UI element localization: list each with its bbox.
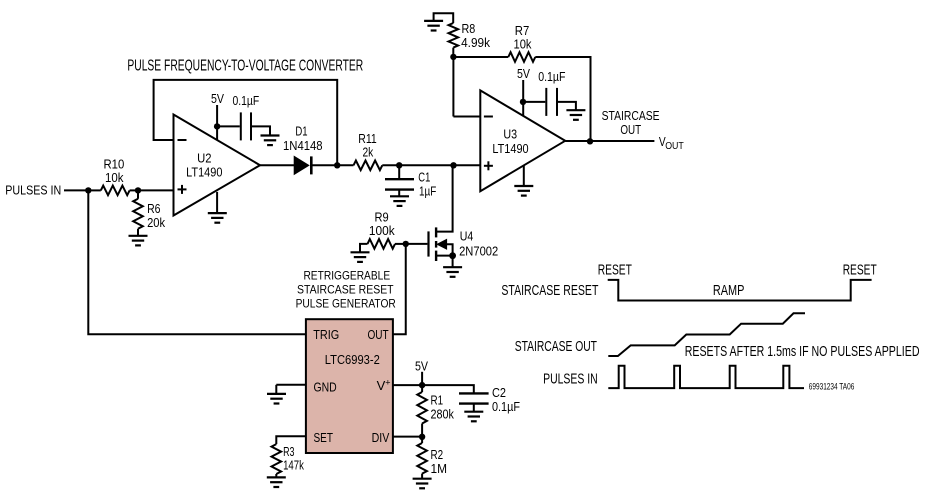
resistor R11 [354, 161, 383, 171]
pin label DIV [372, 430, 390, 445]
label 0.1uF at U3 [538, 69, 565, 84]
svg-text:U3: U3 [503, 127, 517, 142]
svg-text:RESETS AFTER 1.5ms IF NO PULSE: RESETS AFTER 1.5ms IF NO PULSES APPLIED [685, 343, 920, 360]
svg-text:R8: R8 [462, 21, 476, 36]
ground below R2 [413, 479, 432, 489]
svg-text:DIV: DIV [372, 430, 390, 445]
svg-text:RESET: RESET [843, 261, 877, 278]
node feedback tap [334, 162, 340, 168]
U2 minus sign [178, 139, 187, 141]
svg-text:C2: C2 [492, 385, 506, 400]
svg-text:GND: GND [314, 379, 337, 394]
wire to U3 bypass cap [523, 101, 545, 103]
resistor R3 [272, 444, 282, 474]
wire PULSES IN lead [64, 189, 88, 191]
label D1 [283, 123, 323, 152]
ground at R9 left [351, 252, 370, 262]
U4 body arrow [437, 240, 447, 250]
svg-text:R1: R1 [431, 393, 444, 408]
svg-text:5V: 5V [415, 358, 428, 373]
svg-text:PULSE GENERATOR: PULSE GENERATOR [296, 297, 396, 311]
U3 plus sign [484, 161, 493, 170]
wire R3 bottom lead [275, 474, 277, 477]
wire U2 out to D1 [260, 164, 296, 166]
svg-text:0.1µF: 0.1µF [233, 93, 260, 108]
wire PULSES IN to TRIG [88, 190, 306, 334]
svg-text:RESET: RESET [598, 261, 632, 278]
svg-text:OUT: OUT [368, 327, 389, 342]
svg-text:4.99k: 4.99k [461, 35, 490, 50]
waveform staircase reset [608, 280, 872, 301]
ground at U2 bypass [261, 136, 280, 146]
label R10 [104, 157, 125, 186]
node gate junction [403, 241, 409, 247]
node R10/R6 junction [135, 187, 141, 193]
wire -IN riser [452, 57, 454, 117]
wire to U3 +IN [454, 164, 481, 166]
wire R6 bottom lead [137, 229, 139, 235]
wire to C2 [422, 385, 474, 393]
node U3 supply tap [520, 99, 526, 105]
label RESET left [598, 261, 632, 278]
U3 minus sign [484, 116, 493, 118]
svg-text:280k: 280k [431, 406, 455, 421]
label STAIRCASE OUT [602, 108, 660, 137]
label C2 [492, 385, 520, 414]
pin label TRIG [313, 327, 339, 342]
capacitor C2 [459, 393, 489, 403]
wire U4 drain lead [436, 165, 453, 231]
svg-text:100k: 100k [369, 223, 395, 238]
ground at U3 bypass [566, 110, 585, 120]
label STAIRCASE OUT waveform [515, 338, 597, 355]
wire gnd to R8 [434, 13, 454, 23]
wire R7 to output node [535, 57, 590, 141]
label LTC6993-2 [325, 352, 380, 367]
U2 plus sign [178, 185, 187, 194]
svg-text:LT1490: LT1490 [492, 141, 528, 156]
wire R10 right lead [130, 189, 138, 191]
svg-text:R9: R9 [375, 209, 389, 224]
node V+ junction [419, 382, 425, 388]
svg-text:10k: 10k [514, 37, 532, 52]
wire GND stub [275, 385, 277, 394]
wire DIV pin [393, 436, 422, 438]
label C1 [418, 170, 436, 199]
svg-text:TRIG: TRIG [313, 327, 339, 342]
capacitor 0.1uF at U2 [241, 112, 251, 140]
svg-text:LT1490: LT1490 [186, 165, 222, 180]
wire R2 top lead [421, 437, 423, 443]
label 5V at U2 [211, 91, 224, 106]
pin label OUT [368, 327, 389, 342]
ground below C2 [464, 412, 483, 422]
svg-text:R2: R2 [431, 447, 444, 462]
wire R6 top lead [137, 190, 139, 198]
svg-text:LTC6993-2: LTC6993-2 [325, 352, 380, 367]
ground below R3 [267, 477, 286, 487]
ground below C1 [390, 196, 409, 206]
svg-text:5V: 5V [211, 91, 224, 106]
node U3 output [587, 138, 593, 144]
wire U4 source lead [436, 255, 453, 257]
wire gate lead [406, 243, 428, 245]
node U2 supply tap [214, 123, 220, 129]
ground below R6 [129, 236, 148, 246]
svg-text:20k: 20k [147, 215, 165, 230]
resistor R10 [101, 186, 130, 196]
label R8 [461, 21, 490, 50]
label U4 [459, 229, 498, 259]
wire U3 bypass to gnd [557, 102, 576, 110]
svg-text:147k: 147k [283, 457, 304, 472]
svg-text:2k: 2k [363, 144, 374, 159]
wire R9 gnd lead [360, 244, 368, 252]
label R7 [514, 23, 532, 52]
resistor R9 [368, 239, 396, 249]
wire junction to R7 [453, 56, 508, 58]
wire R11 to C1 node [382, 164, 399, 166]
transistor U4 gate bar [427, 231, 429, 256]
wire C1 node to U3 node [399, 164, 453, 166]
label U2 [186, 151, 222, 180]
wire U4 source to gnd [452, 256, 454, 268]
wire R8 bottom lead [452, 48, 454, 57]
resistor R2 [417, 443, 427, 474]
wire 5V drop to U3 [522, 80, 524, 116]
pin label SET [314, 430, 334, 445]
svg-text:0.1µF: 0.1µF [492, 399, 520, 414]
IC LTC6993-2 body [306, 319, 393, 453]
wire U2 bypass to gnd [251, 126, 270, 135]
svg-text:D1: D1 [295, 123, 307, 138]
wire to U2 bypass cap [217, 125, 240, 127]
svg-text:U4: U4 [460, 229, 474, 244]
wire V+ pin [393, 384, 422, 386]
label U3 [492, 127, 528, 157]
label R11 [358, 131, 377, 159]
pin label V+ [377, 377, 391, 393]
svg-text:PULSES IN: PULSES IN [5, 183, 61, 198]
svg-text:C1: C1 [418, 170, 430, 185]
wire R2 bottom lead [421, 474, 423, 479]
wire to U3 -IN [453, 116, 480, 118]
resistor R1 [417, 392, 427, 424]
diode D1 [294, 156, 311, 174]
svg-text:1M: 1M [431, 461, 448, 476]
svg-text:5V: 5V [517, 66, 530, 81]
wire U3 ground stub [523, 166, 525, 186]
wire to U2 +IN [138, 189, 174, 191]
label STAIRCASE RESET [501, 282, 598, 299]
node U3 +IN / drain tap [450, 162, 456, 168]
ground below U2 [208, 213, 227, 223]
label RESET right [843, 261, 877, 278]
resistor R6 [133, 199, 143, 229]
wire U3 output [565, 140, 654, 142]
waveform staircase out [608, 313, 805, 356]
label RETRIGGERABLE STAIRCASE RESET PULSE GENERATOR [296, 269, 396, 311]
svg-text:OUT: OUT [665, 141, 684, 152]
wire R1 top lead [421, 385, 423, 392]
wire U2 ground stub [216, 192, 218, 213]
svg-text:69931234 TA06: 69931234 TA06 [809, 382, 855, 392]
title PULSE FREQUENCY-TO-VOLTAGE CONVERTER [127, 57, 363, 74]
wire GND pin [276, 384, 306, 386]
wire D1 to R11 [311, 164, 353, 166]
node R8/R7 junction [450, 54, 456, 60]
label part number [809, 382, 855, 392]
svg-text:OUT: OUT [620, 122, 641, 137]
transistor U4 channel [435, 227, 437, 261]
op-amp U3 [480, 90, 565, 191]
svg-text:R6: R6 [147, 201, 160, 216]
label 5V at U3 [517, 66, 530, 81]
svg-text:0.1µF: 0.1µF [538, 69, 565, 84]
wire C1 gnd stub [398, 190, 400, 197]
node U4 source/body [449, 252, 456, 259]
svg-text:STAIRCASE RESET: STAIRCASE RESET [297, 283, 394, 297]
svg-text:STAIRCASE RESET: STAIRCASE RESET [501, 282, 598, 299]
label 0.1uF at U2 [233, 93, 260, 108]
wire R10 left lead [88, 189, 101, 191]
label R3 [283, 444, 304, 473]
resistor R7 [508, 52, 535, 62]
node R1/R2/DIV junction [419, 434, 425, 440]
label R6 [147, 201, 165, 230]
svg-text:RAMP: RAMP [713, 282, 745, 299]
label PULSES IN waveform [543, 370, 598, 387]
resistor R8 [449, 23, 459, 48]
wire U4 body lead [446, 244, 453, 255]
op-amp U2 [174, 115, 261, 216]
node PULSES IN label [5, 183, 61, 198]
capacitor 0.1uF at U3 [546, 88, 557, 116]
capacitor C1 [385, 179, 414, 189]
svg-text:1µF: 1µF [419, 184, 436, 199]
wire U2 feedback loop [154, 80, 338, 165]
svg-text:10k: 10k [105, 170, 124, 185]
ground at R8 top [424, 21, 443, 31]
svg-text:2N7002: 2N7002 [459, 243, 498, 258]
ground at GND pin [267, 394, 286, 404]
svg-text:1N4148: 1N4148 [283, 138, 323, 153]
svg-text:PULSES IN: PULSES IN [543, 370, 598, 387]
label R1 [431, 393, 455, 422]
node input junction [85, 187, 91, 193]
svg-text:RETRIGGERABLE: RETRIGGERABLE [303, 269, 390, 283]
label R9 [369, 209, 395, 238]
wire gate node to OUT pin [393, 244, 406, 334]
svg-text:SET: SET [314, 430, 334, 445]
label RAMP [713, 282, 745, 299]
svg-text:STAIRCASE: STAIRCASE [602, 108, 660, 123]
label R2 [431, 447, 448, 476]
svg-text:STAIRCASE OUT: STAIRCASE OUT [515, 338, 597, 355]
svg-text:PULSE FREQUENCY-TO-VOLTAGE CON: PULSE FREQUENCY-TO-VOLTAGE CONVERTER [127, 57, 363, 74]
wire SET pin [276, 436, 306, 444]
wire R9 to gate node [395, 243, 406, 245]
wire R1 bottom lead [421, 424, 423, 437]
label RESETS AFTER 1.5ms IF NO PULSES APPLIED [685, 343, 920, 360]
label VOUT [659, 134, 684, 152]
wire C2 gnd stub [473, 404, 475, 412]
node C1 tap [396, 162, 402, 168]
svg-text:U2: U2 [197, 151, 211, 166]
ground below U4 [443, 267, 462, 277]
label 5V at V+ [415, 358, 428, 373]
pin label GND [314, 379, 337, 394]
waveform pulses in [608, 366, 804, 388]
wire 5V drop to U2 [216, 105, 218, 140]
wire C1 stub [398, 165, 400, 178]
wire 5V drop [421, 372, 423, 385]
ground below U3 [514, 186, 533, 196]
